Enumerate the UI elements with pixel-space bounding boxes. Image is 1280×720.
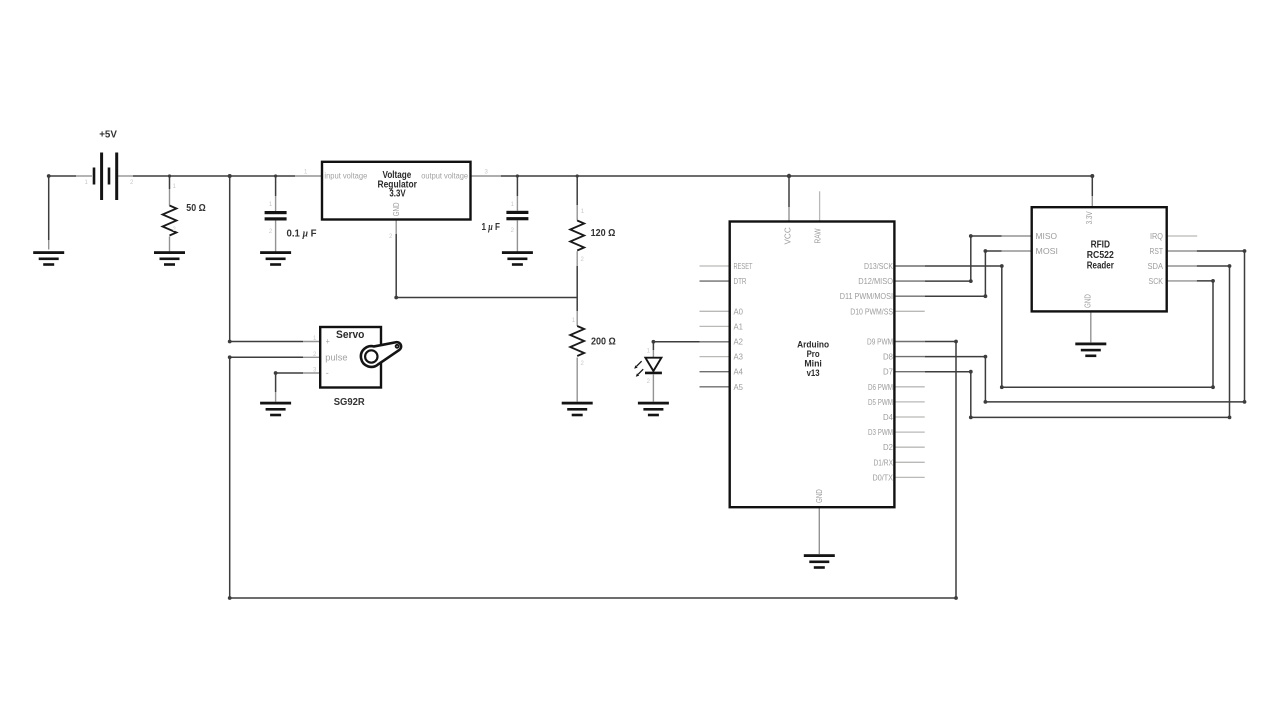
svg-text:Servo: Servo: [336, 329, 365, 341]
svg-text:D9 PWM: D9 PWM: [867, 337, 893, 347]
svg-text:D8: D8: [883, 352, 893, 362]
svg-text:50 Ω: 50 Ω: [186, 203, 205, 214]
svg-text:D11 PWM/MOSI: D11 PWM/MOSI: [840, 291, 893, 301]
svg-text:Arduino: Arduino: [797, 340, 829, 350]
svg-text:output voltage: output voltage: [421, 172, 468, 181]
svg-text:D2: D2: [883, 442, 893, 452]
svg-text:1 μ F: 1 μ F: [482, 222, 501, 233]
svg-text:120 Ω: 120 Ω: [591, 228, 616, 239]
svg-text:3.3V: 3.3V: [389, 188, 406, 199]
svg-text:+: +: [326, 337, 330, 348]
svg-text:D13/SCK: D13/SCK: [864, 261, 893, 271]
svg-text:A1: A1: [734, 321, 744, 331]
svg-text:D10 PWM/SS: D10 PWM/SS: [850, 306, 893, 316]
svg-text:GND: GND: [392, 202, 401, 216]
svg-text:v13: v13: [807, 368, 820, 378]
svg-text:D4: D4: [883, 412, 893, 422]
svg-text:D5 PWM: D5 PWM: [868, 397, 893, 407]
svg-text:-: -: [326, 368, 329, 379]
svg-text:A5: A5: [734, 382, 744, 392]
svg-text:+5V: +5V: [99, 129, 117, 140]
svg-text:DTR: DTR: [734, 276, 747, 286]
svg-text:D7: D7: [883, 367, 893, 377]
svg-text:input voltage: input voltage: [324, 172, 367, 181]
svg-text:SG92R: SG92R: [334, 397, 366, 408]
svg-text:GND: GND: [1084, 294, 1093, 308]
svg-text:A2: A2: [734, 337, 744, 347]
svg-text:D0/TX: D0/TX: [873, 472, 894, 482]
svg-text:D1/RX: D1/RX: [874, 457, 894, 467]
svg-text:D3 PWM: D3 PWM: [868, 427, 893, 437]
svg-text:A3: A3: [734, 352, 744, 362]
svg-text:RC522: RC522: [1087, 250, 1114, 261]
svg-text:0.1 μ F: 0.1 μ F: [287, 228, 317, 239]
svg-text:RESET: RESET: [734, 261, 753, 271]
svg-text:IRQ: IRQ: [1150, 231, 1163, 241]
svg-text:RST: RST: [1150, 246, 1164, 256]
svg-text:D12/MISO: D12/MISO: [858, 276, 893, 286]
svg-text:3.3V: 3.3V: [1085, 211, 1094, 225]
svg-text:A0: A0: [734, 306, 744, 316]
svg-text:MISO: MISO: [1036, 231, 1058, 241]
svg-text:SDA: SDA: [1148, 261, 1164, 271]
svg-text:pulse: pulse: [325, 353, 347, 364]
svg-text:VCC: VCC: [783, 227, 792, 244]
svg-text:SCK: SCK: [1149, 276, 1164, 286]
svg-text:200 Ω: 200 Ω: [591, 337, 616, 348]
svg-text:Reader: Reader: [1087, 260, 1114, 271]
svg-text:D6 PWM: D6 PWM: [868, 382, 893, 392]
svg-text:GND: GND: [815, 489, 824, 503]
svg-text:A4: A4: [734, 367, 744, 377]
svg-text:RAW: RAW: [814, 228, 823, 243]
svg-text:Pro: Pro: [807, 349, 820, 359]
svg-text:MOSI: MOSI: [1036, 246, 1059, 256]
